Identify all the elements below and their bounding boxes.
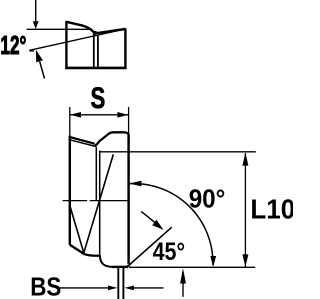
wire: flat bottom wiper edge (front view) [112,266,128,268]
wire: L10 dimension vertical line [244,153,246,267]
wire: top face line merging into L10 top extension line [100,151,256,153]
wire: bottom right 45-degree corner chamfer (front view) [127,264,131,267]
node: BS right arrowhead (points left) [124,286,133,291]
node: junction knot (top view) [93,31,97,35]
wire: bottom baseline extension line [129,266,255,268]
wire: 90 degree dimension arc [129,183,213,265]
wire: 45 degree chamfer extension line [127,227,172,267]
node: arc bottom arrowhead (points down at baseline) [210,256,216,267]
wire: insert top right 12-degree edge (top view) [95,29,126,33]
wire: upper-left top slant edge (front view) [70,137,95,144]
svg-text:12°: 12° [0,30,26,60]
wire: interior diagonal facet line (front view) [84,154,114,253]
wire: insert top edge curve (top view) [66,22,94,34]
wire: inner vertical line right (front view) [99,151,101,256]
wire: bottom edge left portion (front view) [85,254,100,256]
node: 45 degree leader arrowhead (points down-right) [152,220,163,230]
node: lower dimension arrowhead (points up-left to angled line) [36,50,43,63]
svg-text:S: S [91,81,106,115]
wire: insert right edge (top view) [124,28,126,69]
wire: horizontal center line (front view) [63,200,128,202]
node: BS left arrowhead (points right) [108,286,118,291]
node: L10 bottom arrowhead (points down) [242,254,248,267]
wire: hump on top (front view) [95,132,129,146]
node: S right arrowhead [117,112,128,118]
wire: bottom dip curve (front view) [100,255,113,267]
wire: 45 degree leader arrow shaft [141,211,155,222]
wire: BS left extension line [117,268,119,299]
node: S left arrowhead [70,112,81,118]
wire: insert left edge (top view) [65,21,67,69]
wire: BS left leader shaft [58,287,109,289]
wire: tick at left end of angled line [29,50,34,52]
wire: BS right extension line [122,268,124,299]
wire: horizontal reference line for 12 degree angle [27,28,93,30]
wire: lower dimension arrow shaft [40,62,45,79]
wire: 45 degree vertical arrow shaft below baseline [182,283,184,297]
wire: left edge with S extension line (front view) [69,107,71,136]
node: inner vertical line pair (top view) [94,34,98,67]
wire: second top slant line (front view) [70,140,96,147]
wire: interior diagonal facet line left (front view) [70,208,84,254]
node: 45 degree up arrowhead (points up at baseline) [180,268,186,283]
wire: S dimension line [70,114,128,116]
wire: upper dimension arrow shaft [35,0,37,22]
wire: inner vertical line left (front view) [95,147,97,201]
svg-text:BS: BS [30,273,61,299]
svg-text:L10: L10 [250,194,293,225]
wire: bottom-left slant edge (front view) [70,245,85,255]
svg-text:45°: 45° [153,237,185,265]
node: L10 top arrowhead (points up) [242,153,248,166]
wire: right edge with S extension line (front view) [128,107,130,134]
node: arc top arrowhead (points left at insert edge) [129,181,142,187]
wire: insert bottom edge (top view) [65,67,126,70]
wire: 12 degree angled dimension line [29,29,125,50]
wire: BS right leader shaft [134,287,164,289]
node: upper dimension arrowhead (points down) [33,21,39,29]
svg-text:90°: 90° [189,185,226,214]
